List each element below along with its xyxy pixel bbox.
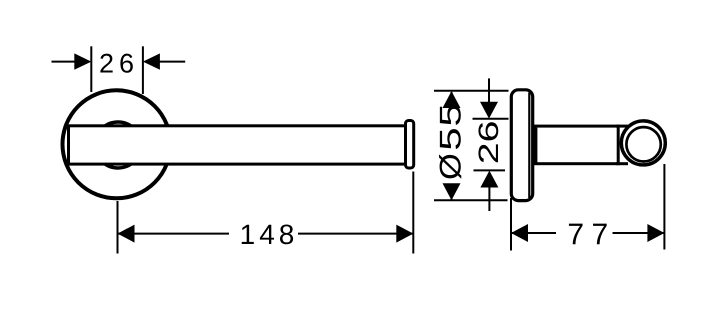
svg-text:5: 5 — [435, 127, 468, 150]
svg-text:6: 6 — [473, 121, 504, 143]
svg-text:26: 26 — [99, 48, 139, 78]
svg-text:5: 5 — [435, 103, 468, 126]
svg-text:2: 2 — [473, 142, 504, 164]
svg-text:77: 77 — [567, 218, 615, 251]
svg-text:Ø: Ø — [435, 153, 468, 180]
svg-text:148: 148 — [240, 219, 299, 250]
